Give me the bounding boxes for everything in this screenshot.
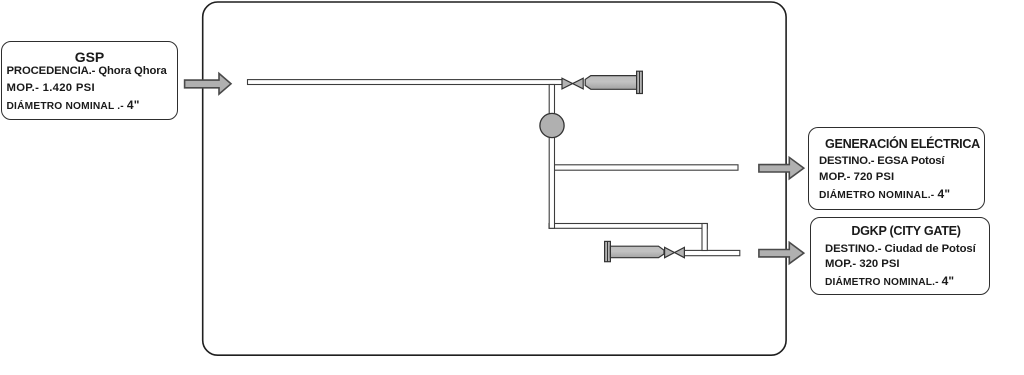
GSP title text: [1, 49, 178, 65]
GSP mop text: [7, 82, 95, 94]
pig trap barrel (bottom): [610, 246, 664, 258]
pig trap end flange (top): [637, 71, 643, 93]
node DGKP CITY GATE label box: [810, 217, 990, 295]
DGKP destino text: [825, 243, 976, 255]
GSP procedencia text: [7, 65, 167, 77]
plant boundary rounded rectangle: [203, 2, 786, 355]
EGSA destino text: [819, 155, 944, 167]
node GSP source label box: [1, 41, 178, 120]
GSP diametro text: [7, 98, 140, 112]
gate valve V1 on inlet: [562, 78, 583, 89]
flow arrow to DGKP: [759, 242, 804, 263]
EGSA mop text: [819, 171, 894, 183]
pig trap barrel (top): [585, 76, 636, 90]
wire branch pipe to EGSA: [552, 165, 738, 170]
DGKP title text: [816, 224, 996, 238]
DGKP mop text: [825, 258, 900, 270]
node GENERACION ELECTRICA label box: [808, 127, 985, 210]
gate valve V2 on DGKP line: [665, 247, 685, 257]
wire lower pipe to DGKP: [684, 250, 739, 255]
EGSA diametro text: [819, 187, 950, 201]
flow arrow to EGSA: [759, 157, 804, 178]
wire main inlet pipe from GSP: [248, 80, 563, 85]
flow arrow inlet: [185, 73, 231, 94]
wire lower horizontal run: [549, 224, 707, 229]
pig trap end flange (bottom): [605, 241, 611, 261]
wire main vertical riser: [549, 85, 554, 229]
ball valve on riser: [540, 113, 564, 137]
wire short vertical drop segment: [702, 224, 707, 251]
DGKP diametro text: [825, 274, 954, 288]
GENERACION ELECTRICA title text: [814, 137, 991, 151]
